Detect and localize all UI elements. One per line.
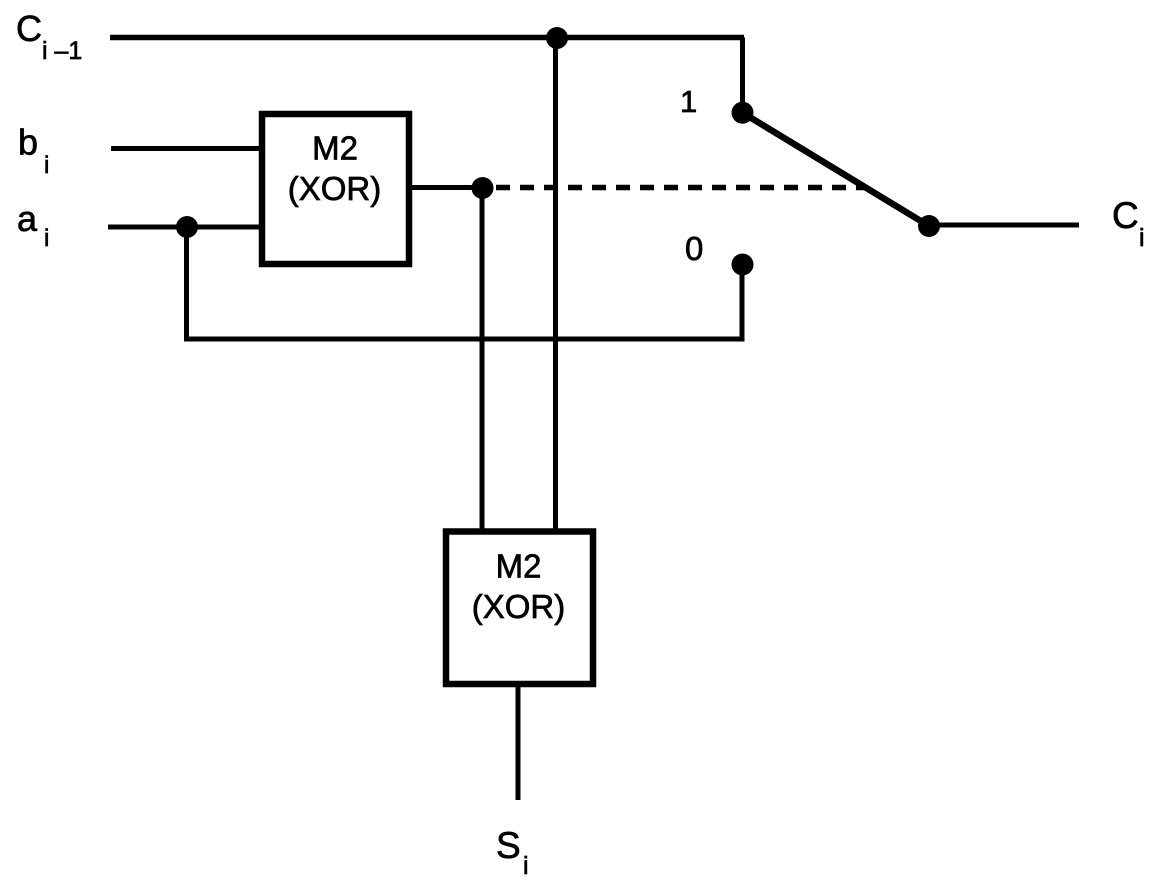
- svg-text:M2: M2: [496, 548, 542, 585]
- wire: drop from top bus to switch terminal 1: [740, 38, 745, 107]
- node: switch pole: [918, 215, 940, 237]
- svg-text:i: i: [44, 152, 49, 179]
- svg-text:b: b: [18, 122, 38, 163]
- wire: bottom horizontal run to switch terminal 0: [184, 337, 742, 342]
- op-block U2: lower M2 (XOR) box: [446, 532, 593, 685]
- node: switch terminal 1: [732, 102, 754, 124]
- svg-text:i: i: [1139, 224, 1145, 252]
- wire: b_i input: [111, 146, 262, 151]
- node: junction at U1 output: [472, 177, 494, 199]
- wire: vertical from a_i junction down: [184, 227, 189, 342]
- svg-text:(XOR): (XOR): [288, 170, 382, 207]
- op-block U1: upper M2 (XOR) box: [262, 114, 409, 264]
- svg-text:a: a: [17, 198, 38, 239]
- wire: S_i output from U2: [516, 684, 521, 800]
- wire: vertical from top-bus junction down to lower XOR input: [553, 38, 558, 531]
- svg-text:1: 1: [680, 84, 697, 119]
- svg-text:S: S: [496, 825, 521, 866]
- svg-text:(XOR): (XOR): [472, 588, 566, 625]
- wire: riser up to switch terminal 0: [740, 266, 745, 342]
- wire: dashed control line to switch: [496, 185, 866, 191]
- switch arm SW1: [743, 113, 929, 226]
- svg-text:M2: M2: [312, 130, 358, 167]
- node: switch terminal 0: [732, 254, 754, 276]
- svg-text:0: 0: [685, 230, 703, 267]
- node: junction on top bus: [546, 27, 568, 49]
- wire: C_i output: [929, 223, 1079, 228]
- svg-text:i: i: [44, 225, 49, 252]
- wire: vertical from U1 output junction down to lower XOR input: [480, 188, 485, 531]
- wire: a_i input: [108, 225, 262, 230]
- node: junction on a_i wire: [176, 216, 198, 238]
- wire: U1 output to junction: [409, 185, 483, 190]
- svg-text:i: i: [523, 852, 529, 880]
- svg-text:C: C: [1112, 195, 1139, 236]
- wire: C(i-1) top horizontal bus: [110, 35, 744, 41]
- svg-text:C: C: [16, 8, 42, 49]
- svg-text:i –1: i –1: [42, 37, 82, 65]
